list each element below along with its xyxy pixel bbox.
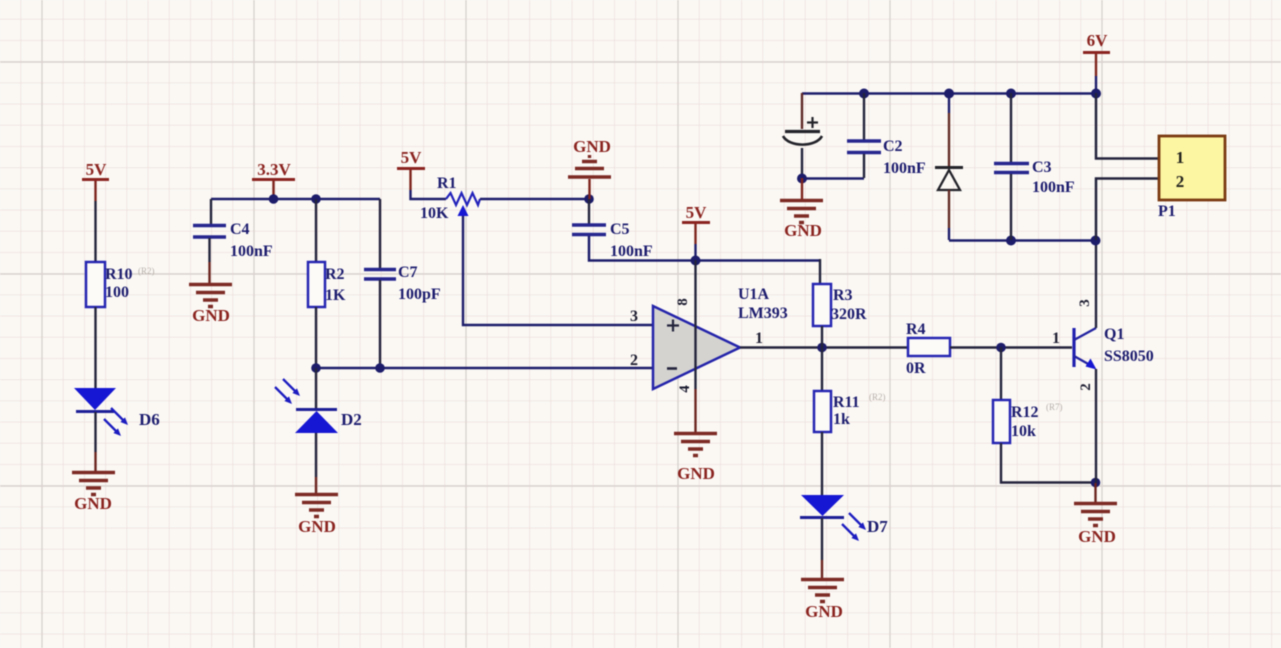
wire C7 to node xyxy=(379,280,381,368)
svg-text:1: 1 xyxy=(1176,148,1185,167)
junction R4/R12 xyxy=(996,343,1006,353)
resistor R12 xyxy=(993,400,1063,443)
junction R2/D2 node xyxy=(311,363,321,373)
power port 5V (at R1) xyxy=(397,148,425,190)
wire R2 to node xyxy=(315,307,317,368)
capacitor C3 xyxy=(994,159,1075,196)
wire R12 to emitter node xyxy=(1001,443,1095,483)
wire C1 node to C2 bottom xyxy=(802,177,864,179)
wire P1 pin2 to rail xyxy=(1096,179,1159,241)
capacitor C5 xyxy=(572,221,653,260)
svg-text:2: 2 xyxy=(1078,383,1094,391)
LED D7 xyxy=(800,495,888,541)
svg-text:3: 3 xyxy=(630,308,638,325)
wire node rail to op-amp pin2 xyxy=(316,367,653,370)
svg-text:100nF: 100nF xyxy=(230,243,273,260)
junction rail/C2 xyxy=(859,89,869,99)
wire 6V to P1 pin1 xyxy=(1096,93,1159,159)
svg-text:GND: GND xyxy=(784,221,822,240)
junction R1/GND/C5 xyxy=(584,194,594,204)
resistor R11 xyxy=(814,391,886,432)
wire collector up xyxy=(1095,241,1097,328)
svg-text:100nF: 100nF xyxy=(610,243,653,260)
resistor R3 xyxy=(813,284,867,326)
svg-text:Q1: Q1 xyxy=(1104,326,1124,343)
svg-text:C2: C2 xyxy=(883,138,903,155)
op-amp U1A LM393 xyxy=(653,260,788,393)
junction rail/6V xyxy=(1091,89,1101,99)
svg-text:100nF: 100nF xyxy=(883,160,926,177)
svg-text:R2: R2 xyxy=(325,266,345,283)
wire R11 to D7 xyxy=(821,432,823,495)
wire rail corner to C7 xyxy=(379,199,381,268)
svg-text:4: 4 xyxy=(677,385,693,393)
junction output/R3/R11 xyxy=(817,343,827,353)
wire rail to diode xyxy=(948,93,950,113)
ground GND (under D7) xyxy=(801,580,844,622)
ground GND (under D2) xyxy=(295,495,338,537)
svg-text:6V: 6V xyxy=(1087,31,1109,50)
svg-text:C5: C5 xyxy=(610,221,630,238)
wire 3.3V rail xyxy=(211,198,380,201)
wire C2 to node xyxy=(863,154,865,178)
capacitor C4 xyxy=(193,221,273,260)
LED D6 xyxy=(74,388,160,436)
svg-text:3: 3 xyxy=(1077,299,1093,307)
wire bottom rail xyxy=(949,239,1096,242)
ground GND (left, under D6) xyxy=(72,473,115,514)
wire node to D2 xyxy=(315,368,317,409)
svg-text:GND: GND xyxy=(805,602,843,621)
svg-text:D2: D2 xyxy=(341,410,362,429)
wire emitter down xyxy=(1095,369,1097,483)
svg-text:1k: 1k xyxy=(833,411,850,428)
wire output to R11 xyxy=(821,347,823,391)
svg-text:3.3V: 3.3V xyxy=(257,160,291,179)
svg-text:P1: P1 xyxy=(1158,203,1176,220)
wire 5V to R1 xyxy=(411,190,447,199)
svg-text:5V: 5V xyxy=(86,160,108,179)
svg-text:(R2): (R2) xyxy=(138,266,155,276)
junction rail/diode xyxy=(944,89,954,99)
power port 5V (op-amp supply) xyxy=(682,203,710,244)
svg-text:0R: 0R xyxy=(906,360,926,377)
svg-text:R4: R4 xyxy=(906,321,926,338)
svg-text:2: 2 xyxy=(1176,172,1185,191)
diode D (protection) xyxy=(935,168,963,191)
junction 5V rail/pin8 xyxy=(691,256,701,266)
ground GND (inverted, above C5) xyxy=(568,137,611,199)
wire 5V to rail xyxy=(694,244,696,260)
resistor R2 xyxy=(308,262,346,307)
wire rail to C3 xyxy=(1010,93,1012,162)
connector P1 xyxy=(1158,136,1225,220)
wire 6V to rail xyxy=(1095,76,1097,93)
wire R1 to GND node xyxy=(480,198,589,201)
wire R3 to output xyxy=(821,326,823,347)
svg-text:1K: 1K xyxy=(325,287,346,304)
wire pin4 to GND xyxy=(694,389,696,432)
wire R10 to D6 xyxy=(94,307,96,389)
wire C4 to GND xyxy=(208,238,210,262)
svg-text:(R7): (R7) xyxy=(1046,402,1063,412)
svg-text:U1A: U1A xyxy=(738,286,770,303)
svg-text:LM393: LM393 xyxy=(738,305,788,322)
capacitor C2 xyxy=(847,138,926,177)
svg-text:2: 2 xyxy=(630,352,638,369)
svg-text:GND: GND xyxy=(298,517,336,536)
power port 5V (left) xyxy=(82,160,109,201)
svg-text:8: 8 xyxy=(675,298,691,306)
junction bottom rail/collector xyxy=(1091,236,1101,246)
wire C5 to 5V rail xyxy=(589,236,820,261)
wire rail to R2 xyxy=(315,199,317,262)
svg-text:GND: GND xyxy=(573,137,611,156)
resistor R10 xyxy=(86,262,155,307)
svg-text:SS8050: SS8050 xyxy=(1104,348,1154,365)
svg-text:1: 1 xyxy=(1052,330,1060,347)
wire C1 to GND node xyxy=(801,148,803,178)
junction C7 node xyxy=(375,363,385,373)
junction bottom rail/C3 xyxy=(1006,236,1016,246)
svg-text:10k: 10k xyxy=(1011,423,1036,440)
transistor Q1 SS8050 xyxy=(1074,299,1154,391)
wire emitter node to GND xyxy=(1094,483,1096,502)
ground GND (under op-amp) xyxy=(674,434,717,484)
wire diode to bottom rail xyxy=(948,190,950,228)
svg-text:R1: R1 xyxy=(437,175,457,192)
wire rail to C4 xyxy=(210,199,212,224)
wire 6V top rail xyxy=(802,92,1096,95)
wire D6 to GND xyxy=(94,412,96,452)
wire C3 to bottom rail xyxy=(1010,174,1012,240)
ground GND (under C4) xyxy=(189,285,232,326)
svg-text:R11: R11 xyxy=(833,394,860,411)
svg-text:GND: GND xyxy=(677,464,715,483)
svg-text:R12: R12 xyxy=(1011,404,1039,421)
svg-text:(R2): (R2) xyxy=(869,392,886,402)
svg-text:320R: 320R xyxy=(831,306,867,323)
svg-text:R10: R10 xyxy=(105,266,133,283)
wire rail to C2 xyxy=(863,93,865,140)
svg-text:GND: GND xyxy=(1078,527,1116,546)
svg-text:5V: 5V xyxy=(686,203,708,222)
power port 6V xyxy=(1083,31,1110,76)
svg-text:100: 100 xyxy=(105,284,129,301)
power port 3.3V xyxy=(252,160,295,199)
wire R4 to Q1 base xyxy=(950,346,1072,348)
junction rail/C3 xyxy=(1006,89,1016,99)
svg-text:100nF: 100nF xyxy=(1032,179,1075,196)
svg-text:D7: D7 xyxy=(867,517,888,536)
photodiode D2 xyxy=(275,379,362,433)
junction C1/C2 bottom xyxy=(797,174,807,184)
wire D7 to GND xyxy=(821,518,823,560)
wire 5V to R10 xyxy=(94,201,96,262)
junction rail/R2 xyxy=(311,194,321,204)
svg-text:5V: 5V xyxy=(401,148,423,167)
wire node to GND xyxy=(801,178,803,199)
svg-text:C3: C3 xyxy=(1032,159,1052,176)
svg-text:1: 1 xyxy=(755,330,763,347)
wire output pin1 xyxy=(740,346,908,348)
svg-text:100pF: 100pF xyxy=(398,286,441,303)
svg-text:10K: 10K xyxy=(420,205,449,222)
junction emitter/GND xyxy=(1091,478,1101,488)
potentiometer R1 10K xyxy=(420,175,480,222)
wire R1 wiper to pin3 xyxy=(463,216,653,325)
ground GND (under Q1) xyxy=(1074,504,1117,547)
capacitor C7 xyxy=(364,264,441,303)
ground GND (top right) xyxy=(780,201,823,241)
svg-text:GND: GND xyxy=(192,306,230,325)
capacitor C1 (electrolytic) xyxy=(783,117,822,145)
wire rail to cap C1 xyxy=(801,93,803,129)
svg-text:GND: GND xyxy=(74,494,112,513)
wire D2 to GND xyxy=(315,433,317,477)
svg-text:C4: C4 xyxy=(230,221,250,238)
svg-text:R3: R3 xyxy=(833,287,853,304)
wire node to C5 xyxy=(588,199,590,224)
wire node to R12 xyxy=(1000,347,1002,400)
resistor R4 xyxy=(906,321,950,377)
svg-text:D6: D6 xyxy=(139,410,160,429)
junction 3.3V/wire xyxy=(269,194,279,204)
wire rail corner to R3 xyxy=(819,259,821,284)
svg-text:C7: C7 xyxy=(398,264,418,281)
